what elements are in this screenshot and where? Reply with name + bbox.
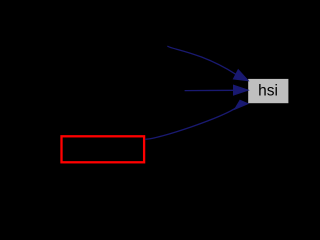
svg-text:hsi: hsi	[258, 83, 278, 100]
node caller (red, truncated)	[62, 136, 145, 162]
wire edge1 (top caller to hsi)	[168, 46, 249, 81]
wire edge3 (red node to hsi)	[145, 100, 248, 139]
node hsi	[248, 79, 288, 103]
wire edge2 (middle caller to hsi)	[185, 85, 249, 95]
